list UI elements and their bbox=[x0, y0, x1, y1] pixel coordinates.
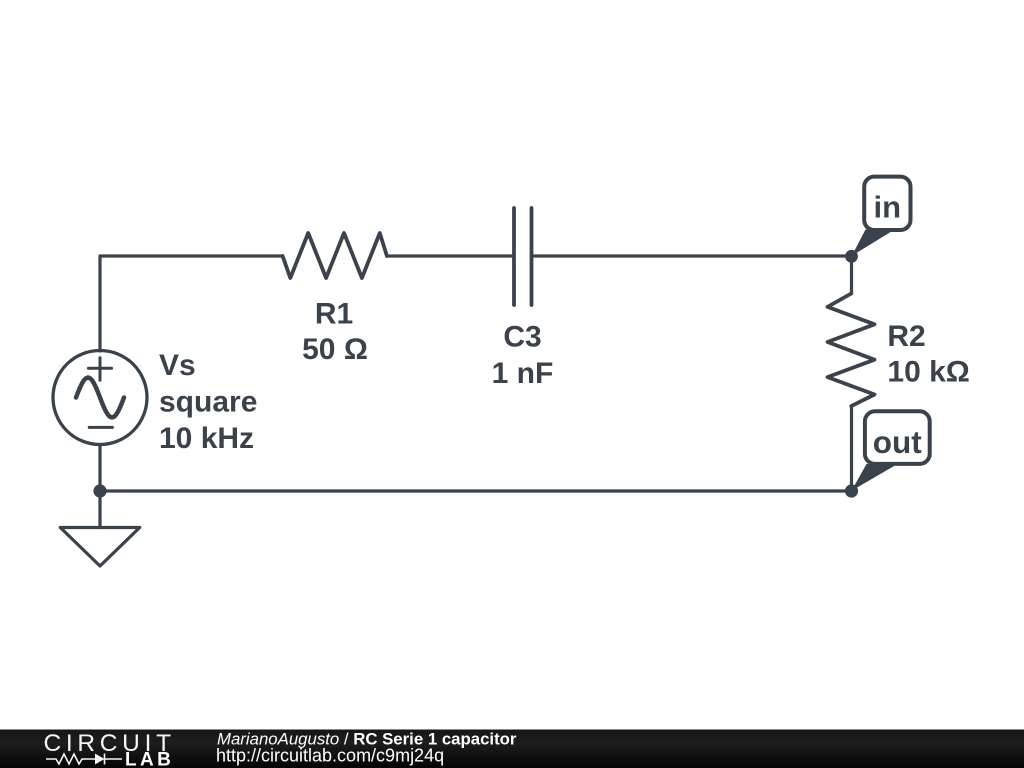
svg-text:10 kHz: 10 kHz bbox=[159, 422, 254, 455]
node out flag bbox=[852, 411, 930, 491]
node in flag bbox=[852, 177, 911, 256]
capacitor C3 bbox=[514, 208, 532, 305]
CircuitLab logo bbox=[44, 730, 176, 768]
svg-text:http://circuitlab.com/c9mj24q: http://circuitlab.com/c9mj24q bbox=[216, 746, 444, 766]
footer title text bbox=[216, 730, 517, 766]
junction ground node bbox=[93, 484, 106, 497]
svg-text:out: out bbox=[873, 424, 922, 460]
wire R2 to node out bbox=[850, 406, 853, 491]
wire node in to R2 bbox=[850, 256, 853, 294]
junction node in bbox=[845, 250, 858, 263]
svg-text:square: square bbox=[159, 386, 257, 419]
svg-text:R2: R2 bbox=[887, 320, 925, 353]
svg-text:50 Ω: 50 Ω bbox=[302, 333, 368, 366]
resistor R2 bbox=[828, 294, 875, 407]
wire vs top to R1 bbox=[100, 256, 283, 351]
voltage source sine wave bbox=[76, 378, 124, 418]
wire C3 to node in bbox=[534, 254, 852, 257]
svg-text:10 kΩ: 10 kΩ bbox=[887, 356, 969, 389]
svg-text:R1: R1 bbox=[315, 297, 353, 330]
svg-text:C3: C3 bbox=[503, 321, 541, 354]
svg-text:LAB: LAB bbox=[125, 750, 174, 768]
voltage source minus sign bbox=[89, 426, 112, 429]
voltage source plus sign bbox=[88, 358, 111, 381]
svg-text:1 nF: 1 nF bbox=[492, 357, 554, 390]
ground bbox=[60, 528, 139, 567]
wire R1 to C3 bbox=[387, 254, 512, 257]
wire bottom rail bbox=[100, 489, 852, 492]
footer bar bbox=[0, 730, 1024, 768]
junction node out bbox=[845, 484, 858, 497]
svg-text:in: in bbox=[874, 190, 902, 225]
svg-text:Vs: Vs bbox=[159, 349, 196, 382]
wire vs bottom to ground bbox=[98, 445, 101, 528]
voltage source Vs circle bbox=[53, 351, 147, 445]
resistor R1 bbox=[283, 233, 387, 278]
